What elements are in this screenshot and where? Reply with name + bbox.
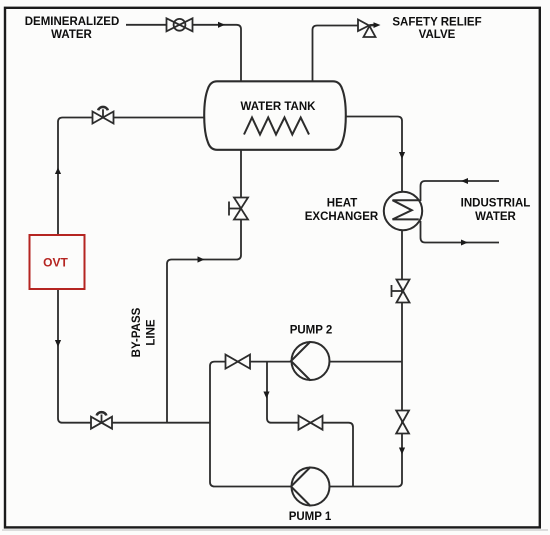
svg-text:VALVE: VALVE — [419, 29, 456, 41]
svg-text:HEAT: HEAT — [327, 197, 357, 209]
vertical valve on pump discharge riser — [396, 411, 409, 434]
svg-text:INDUSTRIAL: INDUSTRIAL — [461, 197, 531, 209]
pump 2 — [290, 325, 333, 381]
hand valve under tank on by-pass return — [229, 198, 248, 220]
svg-text:LINE: LINE — [146, 319, 158, 346]
flow arrow left on industrial water top line — [461, 178, 468, 184]
flow arrow up above OVT — [55, 168, 61, 175]
flow arrow right on by-pass connector — [198, 256, 205, 262]
svg-text:OVT: OVT — [43, 256, 68, 270]
svg-text:SAFETY RELIEF: SAFETY RELIEF — [392, 17, 481, 29]
flow arrow down below riser valve — [399, 448, 405, 455]
svg-text:DEMINERALIZED: DEMINERALIZED — [25, 16, 120, 28]
safety relief valve — [358, 20, 381, 38]
globe valve on demineralized water line — [167, 18, 193, 31]
flow arrow down on middle branch — [263, 392, 269, 399]
flow arrow right on industrial water bottom line — [461, 240, 468, 246]
svg-text:EXCHANGER: EXCHANGER — [305, 211, 379, 223]
water tank — [204, 81, 346, 150]
wire middle branch pump2 line to bottom line — [267, 362, 353, 487]
flow arrow right on demineralized line — [218, 22, 225, 28]
OVT unit — [30, 235, 85, 289]
svg-text:WATER: WATER — [51, 29, 92, 41]
svg-text:BY-PASS: BY-PASS — [131, 307, 143, 357]
wire tank right outlet to heat exchanger — [345, 117, 402, 193]
svg-text:PUMP 2: PUMP 2 — [290, 325, 333, 337]
valve on pump 2 suction line — [226, 355, 251, 369]
flow arrow down to heat exchanger — [399, 152, 405, 159]
control valve on tank left inlet — [93, 107, 114, 124]
heat exchanger U1 — [384, 181, 499, 243]
wire tank left outlet to OVT top — [58, 118, 208, 236]
hand valve under heat exchanger — [392, 280, 410, 303]
pump 1 — [289, 467, 332, 523]
svg-text:WATER TANK: WATER TANK — [241, 101, 317, 113]
wire pump loop: heat exchanger down, bottom line, left riser, pump 2 line — [210, 230, 402, 487]
heating coil in tank — [244, 118, 309, 135]
control valve on main bottom header — [91, 412, 112, 429]
svg-text:PUMP 1: PUMP 1 — [289, 511, 332, 523]
shadow strip under frame — [2, 529, 548, 531]
wire OVT bottom to main bottom header — [58, 289, 210, 423]
svg-text:WATER: WATER — [475, 211, 516, 223]
flow arrow down below OVT — [55, 340, 61, 347]
wire demineralized water feed to tank top — [126, 25, 241, 81]
valve on pump 1 suction branch — [299, 416, 323, 430]
wire by-pass riser to tank bottom — [167, 150, 241, 423]
wire tank top to safety relief valve — [313, 26, 359, 82]
